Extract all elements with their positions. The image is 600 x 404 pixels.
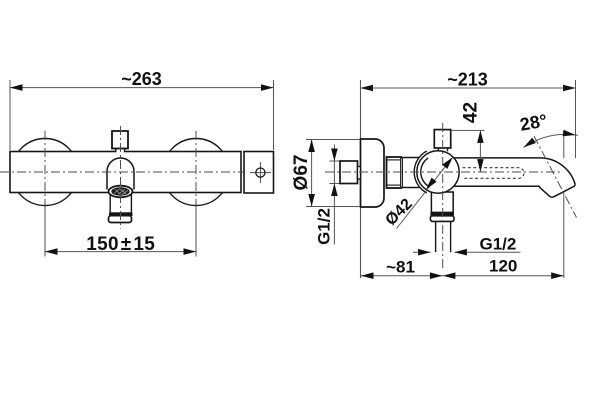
svg-text:120: 120 xyxy=(489,257,517,276)
svg-text:~81: ~81 xyxy=(386,258,415,277)
svg-text:150 ± 15: 150 ± 15 xyxy=(86,234,155,255)
svg-text:42: 42 xyxy=(461,102,482,123)
svg-text:G1/2: G1/2 xyxy=(479,234,516,253)
svg-text:G1/2: G1/2 xyxy=(315,208,334,245)
svg-text:~263: ~263 xyxy=(121,69,162,89)
svg-text:~213: ~213 xyxy=(447,70,488,90)
svg-text:Ø67: Ø67 xyxy=(291,155,312,191)
